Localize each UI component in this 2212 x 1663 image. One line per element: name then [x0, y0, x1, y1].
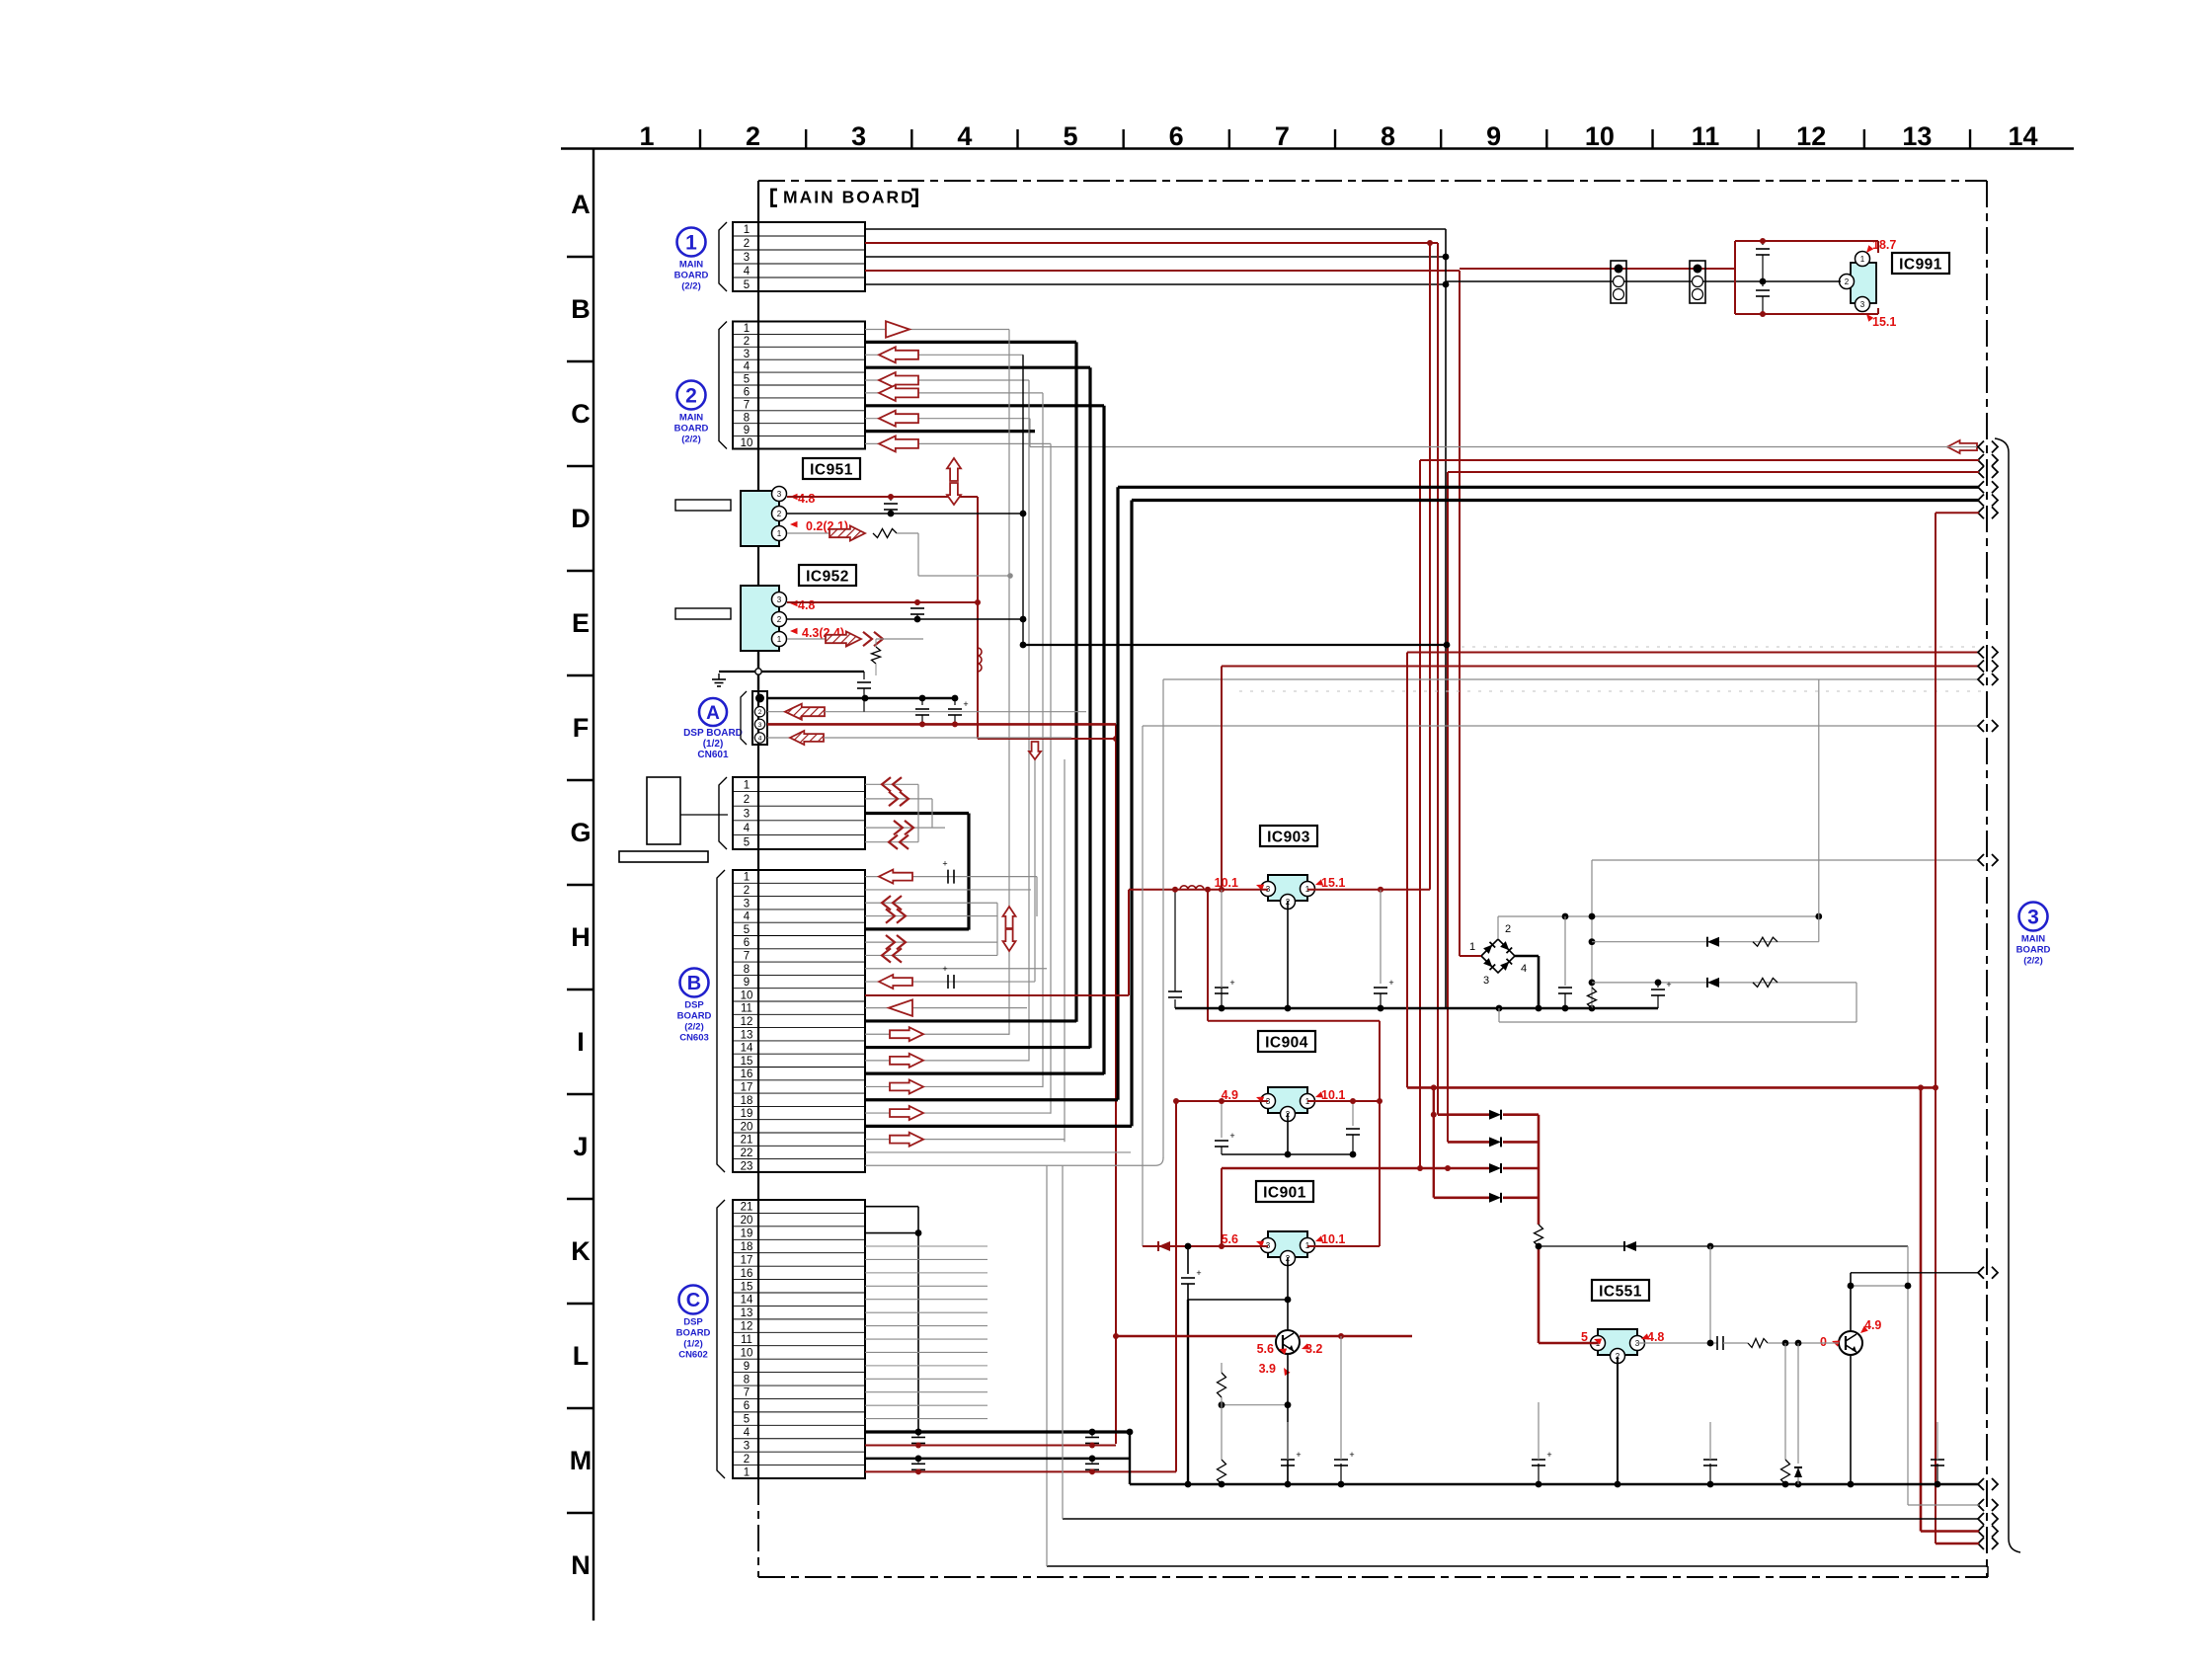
svg-text:7: 7	[1275, 121, 1290, 151]
svg-text:CN602: CN602	[678, 1350, 708, 1361]
svg-text:3: 3	[744, 349, 750, 360]
svg-text:2: 2	[744, 238, 750, 250]
svg-text:9: 9	[744, 1361, 750, 1373]
svg-text:3: 3	[744, 1440, 750, 1452]
svg-text:16: 16	[741, 1069, 753, 1080]
svg-text:10.1: 10.1	[1321, 1232, 1345, 1246]
svg-text:BOARD: BOARD	[674, 271, 709, 281]
svg-text:0: 0	[1820, 1335, 1827, 1349]
svg-text:17: 17	[741, 1081, 753, 1093]
svg-text:3: 3	[777, 595, 782, 604]
svg-text:4: 4	[744, 361, 750, 373]
svg-text:1: 1	[777, 635, 782, 644]
svg-text:8: 8	[1381, 121, 1395, 151]
svg-text:(1/2): (1/2)	[703, 739, 724, 750]
svg-text:IC904: IC904	[1265, 1035, 1308, 1052]
svg-text:2: 2	[746, 121, 760, 151]
svg-text:6: 6	[744, 386, 750, 398]
svg-text:5: 5	[744, 1414, 750, 1426]
svg-text:1: 1	[1469, 941, 1475, 953]
svg-text:15: 15	[741, 1281, 753, 1293]
svg-text:10.1: 10.1	[1215, 876, 1238, 890]
svg-text:12: 12	[1796, 121, 1826, 151]
svg-text:DSP BOARD: DSP BOARD	[683, 728, 743, 739]
svg-text:3: 3	[851, 121, 866, 151]
svg-text:3: 3	[777, 490, 782, 499]
svg-text:1: 1	[744, 779, 750, 791]
svg-text:10: 10	[741, 1347, 753, 1359]
svg-text:2: 2	[1505, 923, 1511, 935]
svg-text:3.9: 3.9	[1259, 1362, 1276, 1376]
svg-text:2: 2	[744, 336, 750, 348]
svg-text:N: N	[571, 1550, 591, 1580]
svg-text:18: 18	[741, 1095, 753, 1107]
svg-text:MAIN: MAIN	[679, 413, 703, 424]
svg-text:2: 2	[1845, 277, 1850, 286]
svg-text:4: 4	[957, 121, 972, 151]
svg-text:K: K	[571, 1236, 591, 1266]
svg-text:2: 2	[777, 510, 782, 518]
svg-text:1: 1	[744, 323, 750, 335]
svg-text:2: 2	[685, 385, 697, 408]
svg-text:L: L	[573, 1341, 590, 1371]
svg-text:IC551: IC551	[1599, 1284, 1642, 1301]
svg-text:11: 11	[741, 1334, 752, 1346]
svg-text:19: 19	[741, 1228, 753, 1240]
svg-text:14: 14	[741, 1043, 753, 1055]
svg-text:+: +	[1349, 1450, 1354, 1460]
svg-text:13: 13	[741, 1029, 753, 1041]
svg-text:7: 7	[744, 1387, 750, 1399]
svg-text:A: A	[571, 190, 591, 219]
svg-text:(2/2): (2/2)	[681, 435, 701, 445]
svg-text:3: 3	[744, 809, 750, 821]
svg-text:M: M	[570, 1446, 592, 1475]
svg-text:12: 12	[741, 1321, 753, 1333]
svg-text:4: 4	[744, 823, 750, 834]
svg-text:6: 6	[744, 937, 750, 949]
svg-text:IC952: IC952	[806, 569, 849, 586]
svg-text:+: +	[942, 964, 947, 974]
svg-text:12: 12	[741, 1016, 753, 1028]
svg-text:9: 9	[1486, 121, 1501, 151]
svg-text:MAIN BOARD: MAIN BOARD	[783, 188, 915, 207]
svg-text:1: 1	[744, 872, 750, 884]
svg-text:4: 4	[758, 736, 762, 743]
svg-text:(2/2): (2/2)	[684, 1022, 704, 1033]
svg-text:BOARD: BOARD	[676, 1328, 711, 1339]
svg-text:D: D	[571, 504, 591, 533]
svg-text:1: 1	[744, 1466, 750, 1478]
svg-text:+: +	[942, 859, 947, 869]
svg-text:4: 4	[744, 1427, 750, 1439]
svg-text:(2/2): (2/2)	[2023, 956, 2043, 967]
svg-text:3: 3	[758, 722, 762, 729]
svg-text:5.6: 5.6	[1222, 1232, 1238, 1246]
svg-text:10: 10	[741, 437, 753, 449]
svg-text:14: 14	[741, 1295, 753, 1307]
svg-text:IC901: IC901	[1263, 1185, 1306, 1202]
svg-text:20: 20	[741, 1215, 753, 1227]
svg-text:2: 2	[777, 615, 782, 624]
svg-text:DSP: DSP	[684, 1000, 704, 1011]
svg-text:B: B	[571, 294, 591, 324]
svg-text:13: 13	[1902, 121, 1932, 151]
svg-text:(2/2): (2/2)	[681, 281, 701, 292]
svg-text:+: +	[1229, 978, 1234, 988]
svg-text:MAIN: MAIN	[2021, 934, 2045, 945]
svg-text:G: G	[570, 818, 591, 847]
svg-text:7: 7	[744, 950, 750, 962]
svg-text:4.8: 4.8	[1647, 1330, 1664, 1344]
svg-text:9: 9	[744, 425, 750, 436]
svg-text:5: 5	[744, 279, 750, 291]
svg-text:J: J	[573, 1132, 588, 1161]
svg-text:14: 14	[2009, 121, 2038, 151]
svg-text:23: 23	[741, 1160, 753, 1172]
svg-text:DSP: DSP	[683, 1317, 703, 1328]
svg-text:5: 5	[744, 374, 750, 386]
svg-text:4: 4	[1521, 963, 1527, 975]
svg-text:F: F	[573, 713, 590, 743]
svg-text:C: C	[686, 1290, 700, 1311]
svg-text:10: 10	[1585, 121, 1615, 151]
svg-text:+: +	[1546, 1450, 1551, 1460]
svg-text:A: A	[706, 703, 720, 724]
svg-text:3: 3	[744, 252, 750, 264]
svg-text:1: 1	[685, 232, 697, 255]
svg-text:11: 11	[741, 1003, 752, 1015]
svg-text:15.1: 15.1	[1872, 315, 1896, 329]
svg-text:5: 5	[744, 837, 750, 849]
svg-text:5: 5	[1063, 121, 1077, 151]
svg-text:8: 8	[744, 1374, 750, 1386]
svg-text:8: 8	[744, 964, 750, 976]
svg-text:+: +	[1388, 978, 1393, 988]
svg-text:B: B	[687, 973, 701, 994]
svg-text:IC903: IC903	[1267, 830, 1310, 846]
svg-text:21: 21	[741, 1135, 753, 1147]
svg-text:6: 6	[1169, 121, 1184, 151]
svg-text:4.8: 4.8	[798, 598, 815, 612]
svg-text:18: 18	[741, 1241, 753, 1253]
svg-text:CN601: CN601	[697, 750, 729, 760]
svg-text:1: 1	[744, 224, 750, 236]
svg-text:13: 13	[741, 1307, 753, 1319]
svg-text:+: +	[963, 699, 968, 709]
svg-text:6: 6	[744, 1400, 750, 1412]
svg-text:+: +	[1229, 1131, 1234, 1141]
svg-text:IC991: IC991	[1899, 257, 1942, 274]
svg-text:8: 8	[744, 412, 750, 424]
svg-text:11: 11	[1692, 121, 1720, 151]
svg-text:4.8: 4.8	[798, 492, 815, 506]
svg-text:17: 17	[741, 1254, 753, 1266]
svg-text:10.1: 10.1	[1321, 1088, 1345, 1102]
svg-text:16: 16	[741, 1268, 753, 1280]
svg-text:19: 19	[741, 1108, 753, 1120]
svg-text:3: 3	[1860, 300, 1865, 309]
svg-text:4: 4	[744, 911, 750, 923]
svg-text:H: H	[571, 922, 591, 952]
svg-text:MAIN: MAIN	[679, 260, 703, 271]
svg-text:CN603: CN603	[679, 1033, 709, 1044]
svg-text:3: 3	[744, 898, 750, 910]
svg-text:22: 22	[741, 1148, 753, 1159]
svg-text:1: 1	[777, 529, 782, 538]
svg-text:5.6: 5.6	[1257, 1342, 1274, 1356]
svg-text:7: 7	[744, 399, 750, 411]
svg-text:5: 5	[744, 924, 750, 936]
svg-text:+: +	[1296, 1450, 1301, 1460]
svg-text:E: E	[572, 608, 590, 638]
svg-text:BOARD: BOARD	[677, 1011, 712, 1022]
svg-text:BOARD: BOARD	[2016, 945, 2051, 956]
svg-text:15.1: 15.1	[1321, 876, 1345, 890]
svg-text:4: 4	[744, 266, 750, 277]
svg-text:15: 15	[741, 1056, 753, 1068]
svg-text:IC951: IC951	[810, 462, 853, 479]
svg-text:3: 3	[1483, 975, 1489, 987]
svg-text:21: 21	[741, 1202, 753, 1214]
svg-text:1: 1	[1860, 255, 1865, 264]
svg-text:9: 9	[744, 977, 750, 989]
svg-text:2: 2	[744, 1454, 750, 1465]
svg-text:1: 1	[639, 121, 654, 151]
svg-text:C: C	[571, 399, 591, 429]
svg-text:2: 2	[744, 794, 750, 806]
svg-text:2: 2	[744, 885, 750, 897]
svg-text:+: +	[1666, 980, 1671, 990]
svg-text:BOARD: BOARD	[674, 424, 709, 435]
svg-text:+: +	[1196, 1268, 1201, 1278]
svg-text:(1/2): (1/2)	[683, 1339, 703, 1350]
svg-text:3: 3	[2027, 907, 2039, 929]
svg-text:I: I	[577, 1027, 585, 1057]
svg-text:2: 2	[758, 709, 762, 716]
svg-text:10: 10	[741, 990, 753, 1001]
svg-text:20: 20	[741, 1121, 753, 1133]
